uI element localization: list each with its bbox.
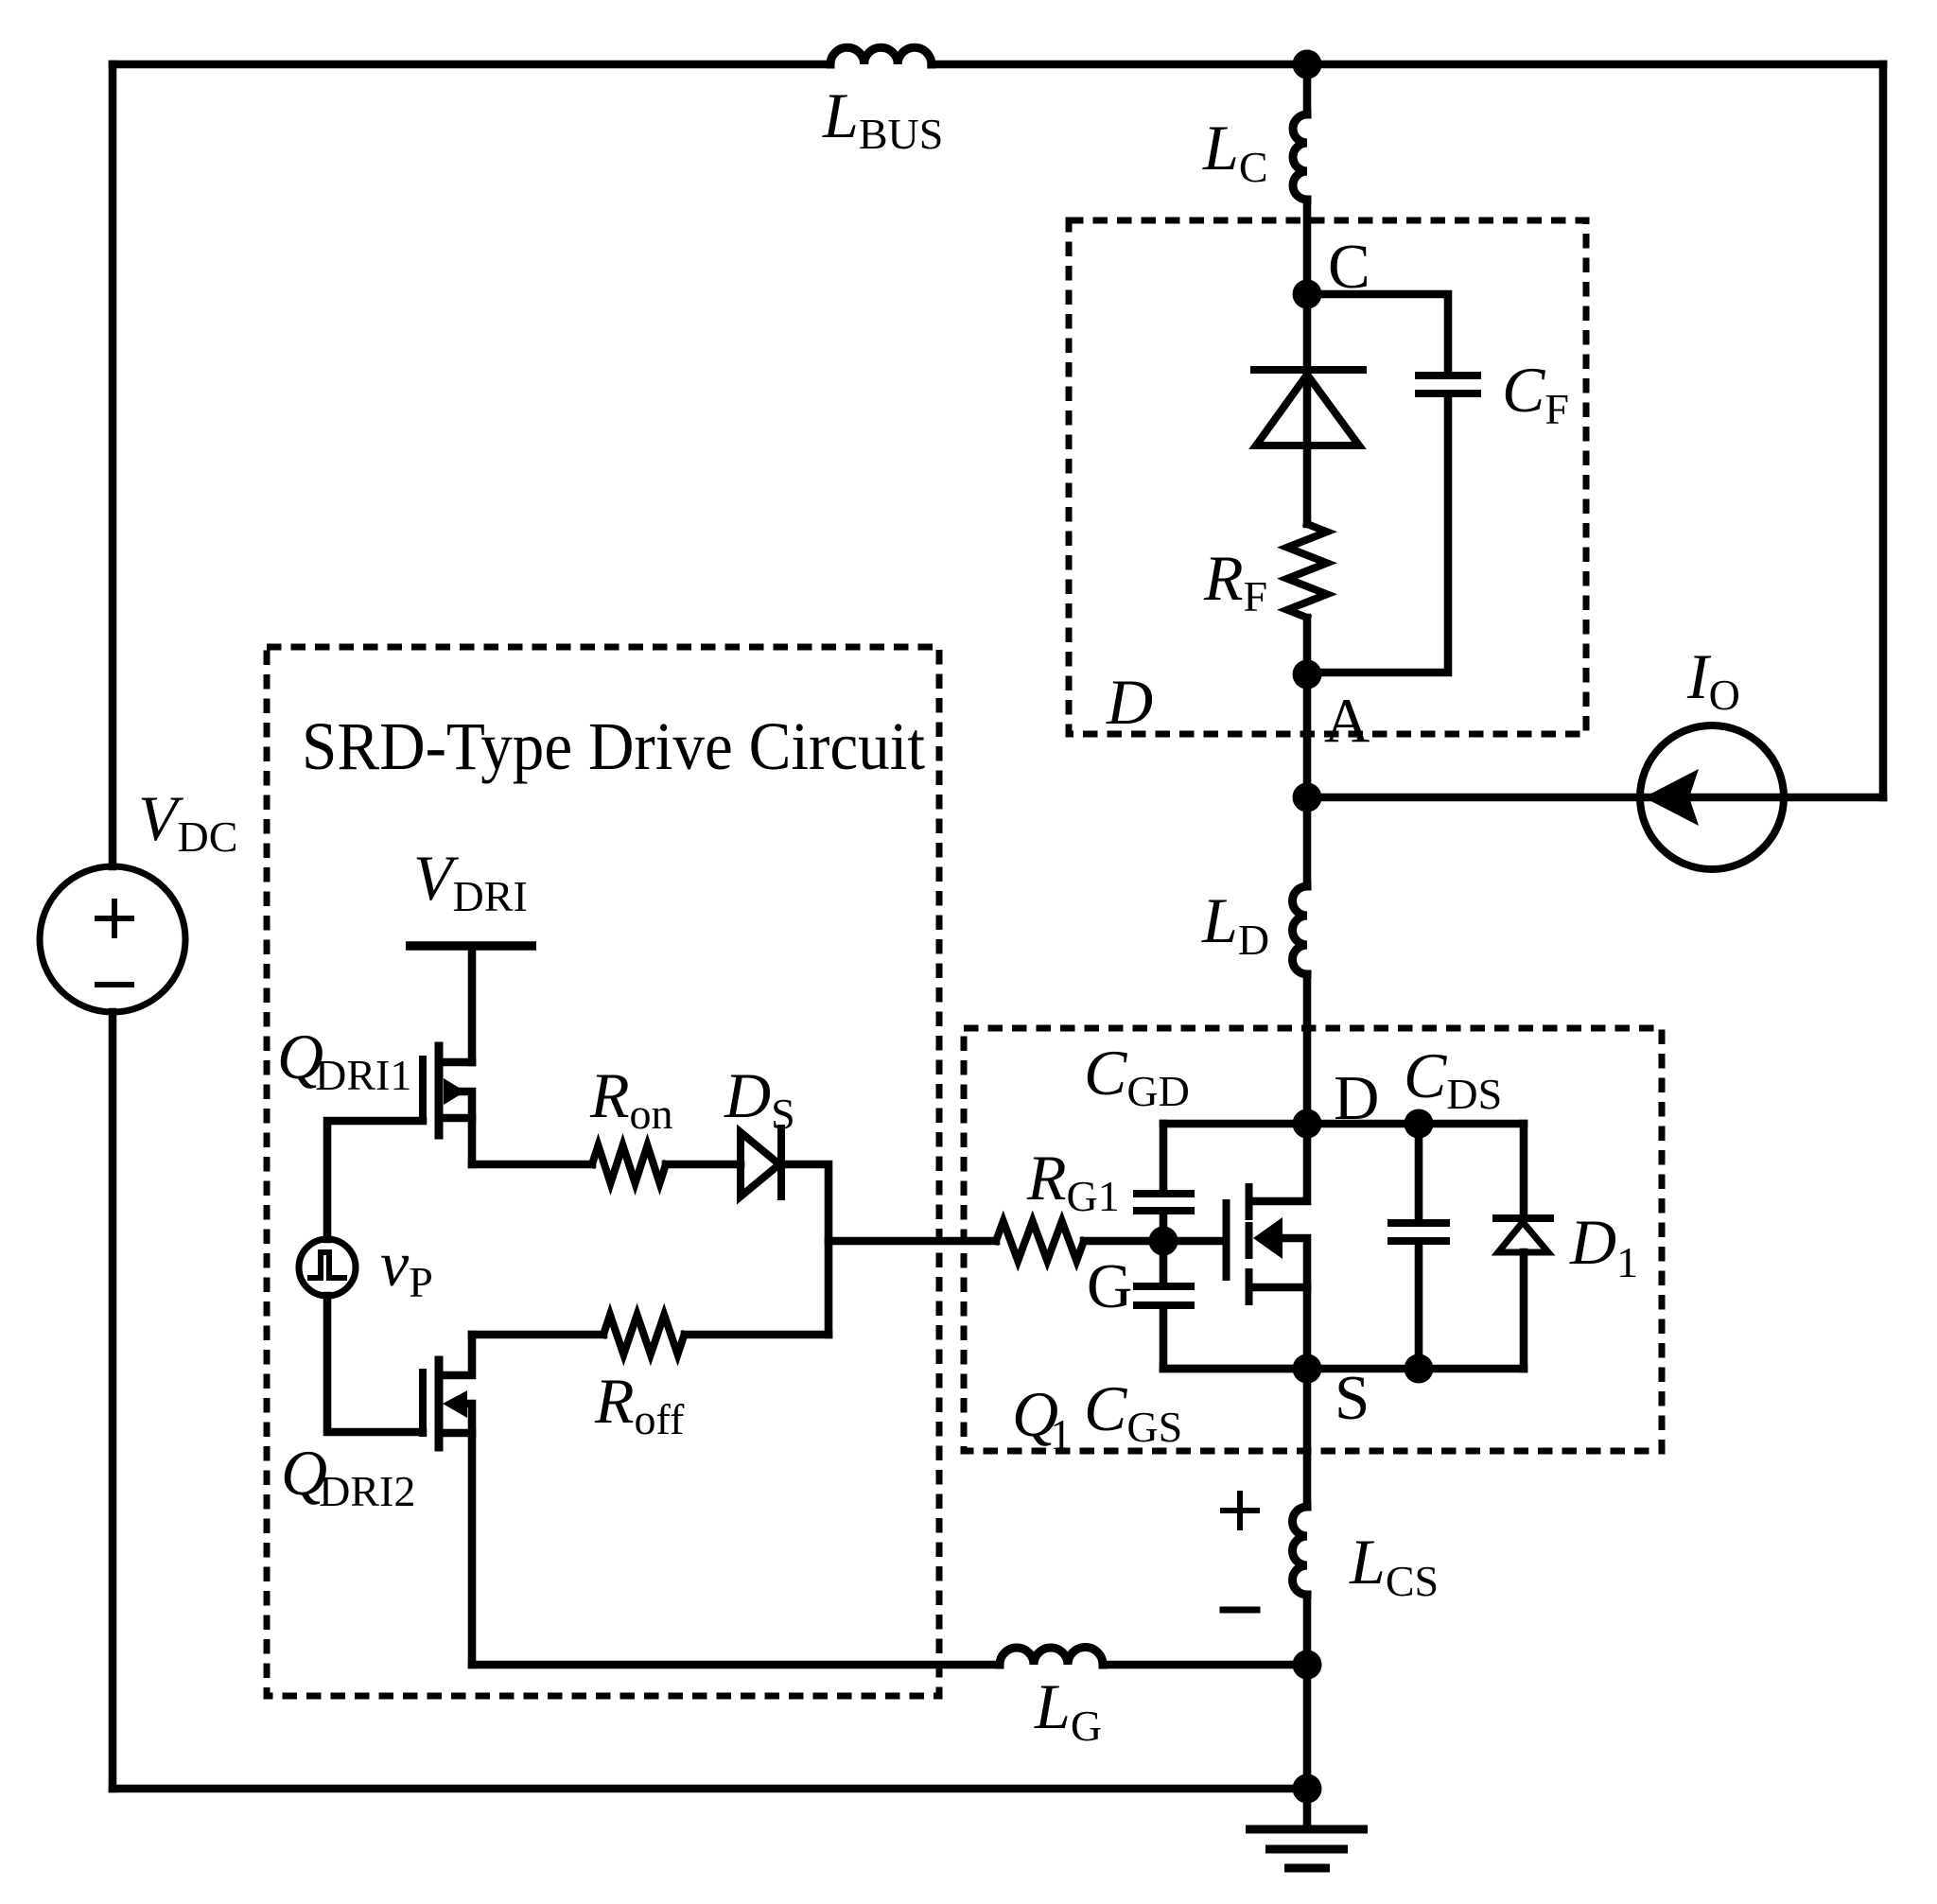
diode D (1254, 366, 1363, 374)
resistor R_G1 (829, 1237, 996, 1246)
wire L_D to node D (1303, 974, 1312, 1124)
junction L_G (1293, 1651, 1322, 1680)
wire C_GS upper (1160, 1241, 1168, 1284)
transistor Q1 mid stub (1277, 1238, 1307, 1369)
wire L_CS to L_G junction (1303, 1596, 1312, 1665)
arrow Q_DRI1 (444, 1078, 465, 1105)
transistor Q1 gate bar (1223, 1203, 1230, 1277)
node C (1293, 280, 1322, 309)
resistor R_on (592, 1145, 666, 1183)
wire C_GD upper (1160, 1124, 1168, 1191)
arrow Q1 body (1253, 1217, 1283, 1259)
transistor Q1 channel segment top (1246, 1187, 1253, 1216)
wire Q1 gate lead (1163, 1237, 1223, 1246)
node S (1293, 1354, 1322, 1384)
ground (1303, 1789, 1312, 1825)
wire I_O horizontal (1307, 794, 1883, 802)
diode D_1 branch lower (1520, 1252, 1528, 1369)
wire S to L_CS (1303, 1369, 1312, 1507)
inductor L_CS (1292, 1507, 1307, 1595)
transistor Q1 drain stub (1252, 1124, 1307, 1201)
svg-text:SRD-Type Drive Circuit: SRD-Type Drive Circuit (302, 708, 925, 784)
current source I_O (1640, 725, 1784, 869)
transistor Q_DRI1 mid stub (462, 1092, 472, 1118)
transistor Q_DRI2 source stub (443, 1429, 472, 1438)
wire L_D branch (1303, 797, 1312, 886)
svg-text:S: S (1335, 1363, 1370, 1433)
arrow I_O (1644, 769, 1699, 826)
wire R_off to corner (685, 1331, 829, 1339)
wire R_off lead left (472, 1331, 603, 1339)
svg-text:C: C (1328, 232, 1370, 302)
transistor Q_DRI2 gate bar (419, 1372, 427, 1433)
junction ground (1293, 1774, 1322, 1804)
wire R_F to node A (1303, 618, 1312, 674)
transistor Q_DRI2 drain stub (443, 1335, 472, 1375)
capacitor C_GS (1137, 1283, 1191, 1290)
wire v_P to Q_DRI2 gate (327, 1296, 423, 1432)
wire node A to I_O junction (1303, 674, 1312, 797)
arrow Q_DRI2 (443, 1390, 467, 1418)
wire bottom rail (113, 1785, 1307, 1793)
power bar V_DRI (406, 941, 536, 951)
wire C node to R_F (through diode) (1303, 294, 1312, 524)
resistor R_off (603, 1315, 684, 1354)
capacitor C_DS branch upper (1415, 1124, 1423, 1220)
diode D_1 (1496, 1214, 1550, 1222)
wire S node rail (1163, 1365, 1524, 1373)
capacitor C_DS (1391, 1219, 1446, 1227)
svg-text:G: G (1087, 1251, 1132, 1321)
wire C_GD to G node (1160, 1214, 1168, 1241)
wire L_G junction to ground junction (1303, 1665, 1312, 1789)
transistor Q1 source stub (1252, 1284, 1307, 1292)
wire R_on to D_S (666, 1161, 741, 1169)
transistor Q_DRI1 channel bar (435, 1046, 444, 1135)
wire left rail upper (VDC + to top-left corner) (109, 64, 117, 866)
inductor L_G (1000, 1648, 1103, 1665)
wire V_DRI to Q_DRI1 drain (468, 946, 477, 1062)
svg-text:D: D (1106, 666, 1153, 738)
junction C_DS bottom (1405, 1354, 1434, 1384)
transistor Q_DRI2 mid stub (464, 1404, 472, 1665)
capacitor C_F (1419, 372, 1477, 379)
pulse source v_P (299, 1239, 356, 1296)
transistor Q_DRI1 gate bar (419, 1059, 427, 1121)
wire top rail left (113, 61, 830, 69)
diode D_1 branch upper (1520, 1124, 1528, 1218)
diode D_S (741, 1132, 779, 1197)
node A (1293, 660, 1322, 690)
node D (1293, 1109, 1322, 1139)
voltage source V_DC (40, 866, 185, 1012)
resistor R_F (1287, 524, 1327, 618)
wire right rail (1879, 64, 1888, 797)
inductor L_D (1292, 886, 1307, 974)
transistor Q1 channel segment bottom (1246, 1272, 1253, 1301)
wire C_F top branch (1307, 294, 1448, 373)
wire C_GS lower (1163, 1308, 1307, 1369)
wire D node rail (1163, 1120, 1524, 1128)
capacitor C_GD (1137, 1190, 1191, 1197)
wire L_G to junction (1103, 1661, 1307, 1669)
inductor L_C (1293, 114, 1307, 200)
plus sign L_CS (1223, 1494, 1257, 1528)
transistor Q_DRI1 drain stub (443, 1058, 472, 1067)
wire C_F bottom branch (1307, 396, 1448, 673)
wire R_on lead (472, 1161, 592, 1169)
wire top rail right (932, 61, 1883, 69)
transistor Q_DRI2 channel bar (435, 1360, 444, 1447)
wire L_C top stub (1303, 64, 1312, 114)
svg-text:A: A (1324, 686, 1370, 756)
inductor L_BUS (830, 47, 932, 64)
junction C_DS top (1405, 1109, 1434, 1139)
wire Q_DRI1 gate lead (327, 1121, 423, 1239)
junction node I_O wire (1293, 783, 1322, 812)
dashed box SRD-Type Drive Circuit (267, 647, 939, 1696)
transistor Q1 channel segment middle (1246, 1226, 1253, 1255)
junction node top rail / L_C (1293, 50, 1322, 79)
node G (1149, 1227, 1178, 1256)
dashed box D snubber (1069, 220, 1586, 734)
svg-text:D: D (1334, 1063, 1379, 1133)
capacitor C_DS branch lower (1415, 1244, 1423, 1369)
wire L_C to node C (1303, 200, 1312, 294)
dashed box Q1 (964, 1028, 1662, 1451)
transistor Q_DRI1 source stub (443, 1118, 472, 1164)
wire D_S to output corner (781, 1164, 829, 1335)
wire Q_DRI2 source to L_G (472, 1661, 1000, 1669)
wire left rail lower (VDC - to bottom rail) (109, 1012, 117, 1789)
minus sign L_CS (1223, 1607, 1257, 1614)
